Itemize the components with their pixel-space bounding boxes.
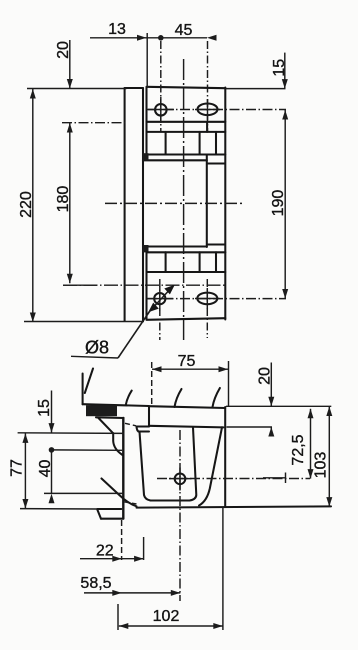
tab left closure (137, 427, 139, 432)
rubber seal (86, 405, 117, 416)
upper band second line (147, 131, 226, 133)
wall plate left edge (124, 88, 126, 321)
dim 20 line upper (69, 40, 71, 89)
dim 15 line (top view) (284, 53, 286, 89)
hole horizontal centerline (157, 478, 310, 480)
dim 15 side line (51, 391, 53, 433)
hook bottom edge (101, 518, 123, 520)
dim 190 line (284, 110, 286, 299)
tab bottom edge (139, 430, 150, 432)
hatch flick 0 (126, 391, 132, 405)
lower holes band top line (147, 271, 226, 273)
dim 102 line (119, 625, 223, 627)
inner bowl bottom (151, 499, 190, 501)
svg-text:40: 40 (37, 460, 54, 478)
bracket hatch diagonal A (98, 418, 113, 434)
dim 13 line (90, 37, 147, 39)
dim 102 left ext (117, 604, 119, 630)
upper round hole (155, 104, 167, 116)
wall front face (82, 374, 84, 405)
lower knuckle verticals (165, 252, 167, 272)
dim 180 line (69, 123, 71, 283)
svg-text:220: 220 (18, 191, 35, 218)
upper band divider (206, 122, 208, 132)
rim back flick 2 (213, 388, 220, 407)
svg-text:15: 15 (271, 59, 288, 77)
rim left edge (148, 407, 150, 426)
dim 75 left ext dashed (151, 362, 153, 407)
svg-text:72,5: 72,5 (290, 434, 307, 465)
dim 75 line (152, 368, 228, 370)
rim bottom line (149, 426, 224, 428)
dim 77 line (24, 433, 26, 508)
dim 45 dot (158, 35, 164, 41)
svg-text:77: 77 (9, 459, 26, 477)
lower lip left end blob (143, 245, 149, 252)
svg-text:15: 15 (36, 399, 53, 417)
svg-text:20: 20 (55, 41, 72, 59)
dim 220 line (32, 89, 34, 322)
top extension line left (27, 88, 127, 90)
left ext 432.6 (18, 432, 125, 435)
O8 leader underline (71, 356, 118, 358)
upper lip left end blob (143, 153, 149, 161)
bracket left edge upper (145, 88, 147, 155)
arrows top view (137, 35, 147, 41)
left upper short centerline (62, 122, 127, 124)
svg-text:102: 102 (153, 608, 180, 625)
svg-text:22: 22 (96, 543, 114, 560)
outer bottom line (137, 506, 332, 507)
svg-text:180: 180 (55, 186, 72, 213)
lower lip bottom line (147, 251, 226, 253)
bracket left edge lower (145, 253, 147, 320)
centerline upper ellipse vertical (207, 41, 209, 131)
right silhouette vertical (224, 407, 226, 507)
hidden dashes near tab (125, 423, 136, 426)
wall plate right edge (142, 88, 144, 321)
mount hole (175, 474, 186, 485)
O8 leader arrowheads (148, 303, 159, 313)
centerline upper circle vertical (160, 41, 162, 131)
upper holes band bottom line (147, 121, 226, 123)
rim top line (149, 406, 225, 408)
dim 45 line (147, 37, 208, 39)
dim 13 ext line (146, 33, 148, 87)
svg-text:75: 75 (178, 353, 196, 370)
svg-text:20: 20 (257, 367, 274, 385)
lower slotted hole (197, 293, 217, 305)
hole vertical centerline (179, 430, 181, 601)
right top extension (225, 88, 285, 90)
bracket hook pocket (113, 433, 122, 455)
svg-text:Ø8: Ø8 (85, 338, 109, 358)
lower holes horizontal centerline (147, 298, 286, 300)
middle horizontal centerline (105, 202, 245, 204)
svg-text:13: 13 (108, 21, 126, 38)
bracket top edge (147, 87, 226, 88)
bracket bottom edge (147, 318, 226, 320)
O8 arrow shaft through hole (150, 286, 174, 312)
dim dot (49, 447, 55, 453)
wall hatch stroke (85, 369, 93, 394)
hidden dash under bracket (124, 502, 137, 504)
C-wall vertical (206, 155, 208, 248)
hook top edge (97, 508, 121, 510)
lower ellipse vertical centerline (206, 279, 208, 338)
lower circle vertical centerline (159, 279, 161, 340)
svg-text:190: 190 (270, 190, 287, 217)
upper lip bottom line (143, 159, 207, 161)
hook left closure (97, 510, 101, 519)
upper slotted hole (198, 104, 218, 116)
upper lip top line (147, 153, 226, 155)
inner bowl left edge (140, 432, 151, 501)
svg-text:103: 103 (313, 452, 330, 479)
dim 22 left ext dashed (121, 520, 123, 560)
main vertical centerline (183, 59, 185, 340)
svg-text:58,5: 58,5 (80, 575, 111, 592)
upper knuckle verticals (165, 132, 167, 155)
arrows side view (152, 366, 162, 372)
bottom extension line (24, 321, 144, 323)
svg-text:45: 45 (175, 22, 193, 39)
dot ext 450 (52, 449, 123, 451)
front slant edge (199, 427, 222, 505)
wall plate top edge (125, 87, 143, 89)
ext 508.6 (20, 508, 97, 510)
side hole crosshair solid (169, 478, 192, 480)
dim 22 right ext (143, 537, 145, 560)
wall underside / rim top left line (83, 404, 149, 406)
flush pipe flick 1 (175, 389, 182, 407)
bracket arm top line (96, 416, 124, 419)
hole crosshair solid (263, 477, 286, 479)
hole crosshairs solid (148, 109, 174, 111)
dim 40 line (51, 450, 53, 494)
ext 493 (44, 492, 123, 494)
lower round hole (154, 293, 165, 304)
dim 72,5 line (310, 409, 312, 479)
rim bottom right extension (227, 426, 273, 428)
tab below rim top edge (137, 425, 150, 427)
left lower short centerline (63, 284, 97, 286)
dim 20 side line (270, 363, 272, 407)
lower lip top line (143, 245, 207, 247)
top right extension (226, 405, 331, 407)
dim 75 right ext (228, 361, 230, 407)
dim 102 right ext / body edge extension (222, 507, 224, 631)
bracket front face (122, 418, 124, 519)
bracket right edge (224, 88, 226, 320)
ceramic rear-bottom diagonal B (102, 479, 137, 507)
lower right step line (207, 243, 224, 245)
upper holes horizontal centerline (147, 109, 286, 111)
O8 leader diagonal (118, 312, 150, 359)
dim 58,5 line (84, 592, 180, 594)
upper right step line (207, 162, 224, 164)
inner bowl right edge (190, 428, 197, 501)
dim 103 line (328, 407, 330, 507)
dim 22 line (80, 558, 144, 560)
